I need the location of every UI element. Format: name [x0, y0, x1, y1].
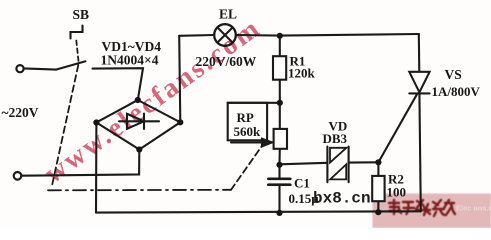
diac VD DB3 bottom triangle: [330, 164, 346, 179]
diac VD DB3 top triangle: [330, 148, 346, 163]
svg-text:EL: EL: [219, 7, 237, 22]
svg-text:1N4004×4: 1N4004×4: [101, 53, 159, 68]
wire top terminal to switch: [24, 68, 56, 69]
bridge rectifier VD1~VD4 diamond: [96, 100, 180, 150]
potentiometer RP wiper arrow: [231, 141, 262, 143]
switch SB blade: [56, 61, 86, 69]
resistor R1 body: [273, 56, 286, 79]
diac VD DB3 left bar: [326, 147, 328, 183]
svg-text:100: 100: [387, 185, 407, 200]
capacitor C1 plates: [268, 178, 290, 181]
terminal bottom-left: [14, 172, 22, 180]
watermark stamp band: [373, 194, 491, 229]
switch SB actuator: [71, 26, 83, 39]
wire diac to gate node: [349, 161, 379, 163]
diac VD DB3 right bar: [348, 147, 350, 183]
resistor R1 leads: [279, 36, 281, 57]
svg-text:VS: VS: [445, 67, 462, 82]
wire switch to bridge top: [93, 68, 144, 100]
wire RP/C1 node to diac: [280, 163, 328, 165]
wire node B to SCR corner: [280, 34, 419, 36]
svg-text:DB3: DB3: [323, 131, 348, 146]
resistor R2 leads: [377, 162, 379, 176]
svg-text:~220V: ~220V: [2, 105, 39, 120]
mechanical link dashed diagonal from switch: [52, 65, 79, 188]
watermark red diagonal: [39, 12, 267, 190]
wire bridge right corner up to top rail: [179, 36, 180, 123]
wire lamp to node B: [236, 34, 280, 37]
svg-text:560k: 560k: [234, 124, 262, 139]
thyristor VS anode wire: [418, 34, 421, 72]
wire bridge left corner down to bottom rail: [95, 123, 98, 213]
svg-text:RP: RP: [237, 110, 254, 125]
mechanical link dash-dot: [48, 189, 231, 192]
thyristor VS cathode bar: [409, 92, 429, 94]
wire top rail to lamp: [179, 34, 214, 37]
bridge inner diode lead: [119, 120, 159, 122]
svg-text:1A/800V: 1A/800V: [432, 84, 481, 99]
svg-text:C1: C1: [294, 176, 310, 191]
svg-text:220V/60W: 220V/60W: [196, 54, 257, 69]
switch SB mechanical dashes: [76, 41, 78, 63]
thyristor VS gate wire: [378, 94, 417, 162]
bottom rail wire: [96, 211, 421, 212]
thyristor VS triangle: [409, 72, 429, 93]
bridge inner diode bar: [143, 114, 145, 129]
junction node dots: [277, 33, 283, 39]
capacitor C1 top lead: [278, 165, 280, 178]
potentiometer RP body: [274, 129, 287, 149]
wire bottom terminal to bridge bottom: [22, 150, 140, 176]
potentiometer RP body leads: [279, 103, 281, 129]
svg-text:bx8.cn: bx8.cn: [313, 190, 371, 208]
bridge inner diode triangle: [127, 114, 144, 129]
thyristor VS cathode wire: [419, 93, 420, 211]
svg-text:SB: SB: [73, 7, 90, 22]
lamp EL: [214, 24, 236, 46]
wire node R1-bottom to RP label box: [228, 102, 280, 104]
terminal top-left: [16, 65, 23, 72]
svg-text:Elec ans.co: Elec ans.co: [456, 204, 491, 213]
mechanical link dashed diagonal to RP wiper: [231, 147, 262, 190]
potentiometer RP label box: [228, 103, 267, 141]
resistor R2 body: [372, 176, 384, 201]
svg-text:120k: 120k: [288, 66, 316, 81]
capacitor C1 bottom lead: [278, 185, 280, 213]
